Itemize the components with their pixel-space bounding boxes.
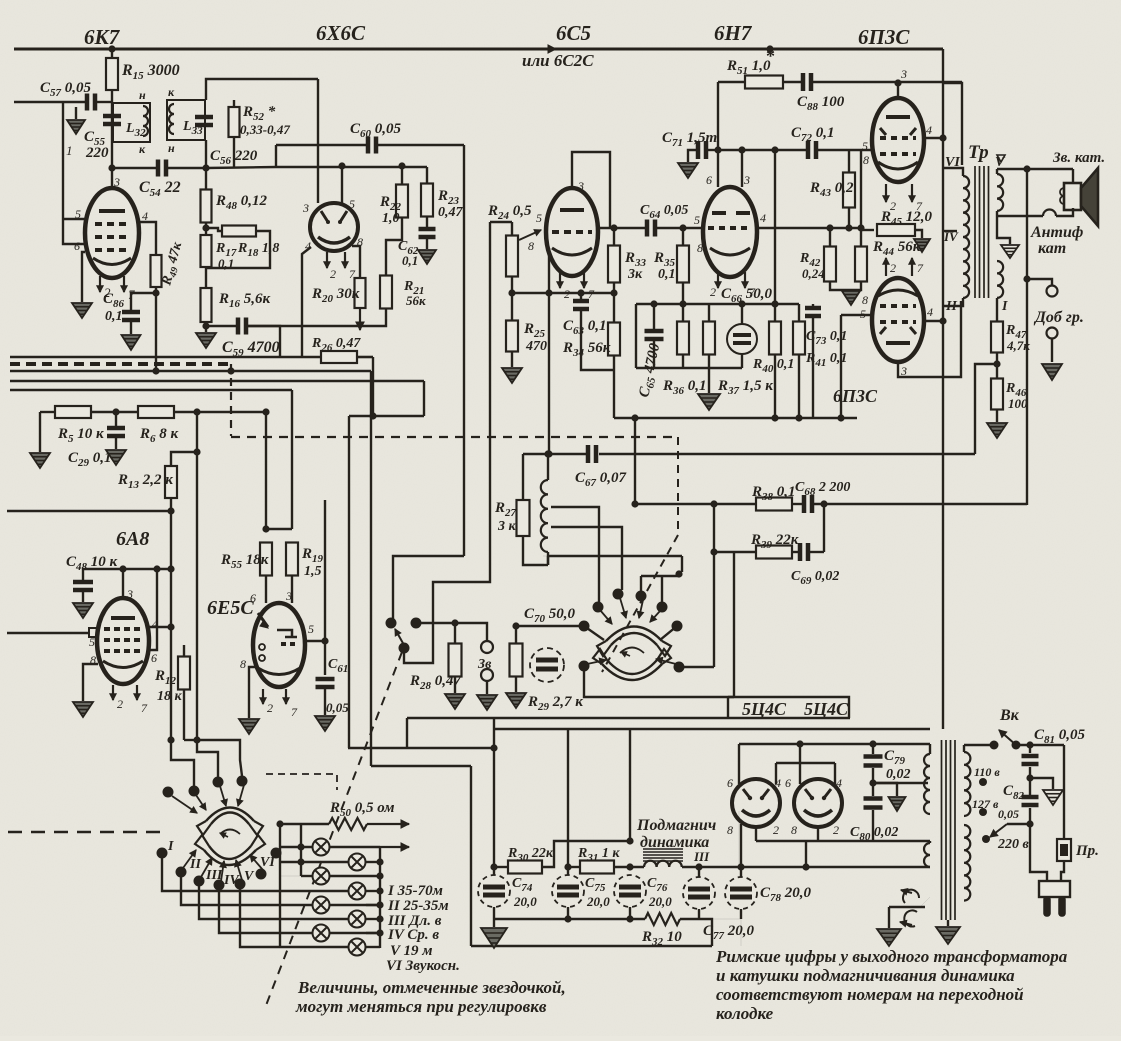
svg-text:6Н7: 6Н7 [714, 21, 753, 45]
resistor R27 [517, 500, 530, 536]
wire C81 ground branch [1030, 778, 1053, 789]
resistor R35 [682, 228, 684, 246]
wire speaker line [997, 168, 1073, 170]
wire 6A8 pin6 stub [148, 569, 157, 650]
svg-text:н: н [139, 88, 146, 102]
wire x349 long vertical [348, 416, 350, 748]
wire 6K7 cathode to ground [82, 252, 85, 302]
wire R34 down [613, 355, 615, 418]
resistor R42 [829, 228, 831, 246]
wire R16 to ground [205, 322, 207, 332]
resistor R52 [233, 100, 235, 108]
electrolytic C76 [614, 875, 646, 907]
resistor R6 [138, 406, 174, 418]
resistor R28 [449, 644, 462, 677]
capacitor C68 [804, 495, 812, 513]
power transformer filament winding [929, 841, 931, 843]
wire 6P3C upper pin3 [897, 83, 899, 98]
wire band feed 1 [171, 740, 194, 786]
svg-text:7: 7 [141, 701, 148, 715]
transformer Tp primary lower [943, 298, 963, 306]
resistor R55 [260, 543, 272, 576]
wire bottom rail y418 [614, 417, 857, 419]
tube 6H7 cathode arc [710, 248, 750, 255]
capacitor C57 [63, 101, 86, 103]
wire avc box top row [636, 303, 799, 305]
svg-text:220 в: 220 в [997, 837, 1030, 852]
lamp row5 [330, 904, 380, 906]
band switch upper arrows [172, 796, 197, 813]
svg-text:соответствуют номерам на перех: соответствуют номерам на переходной [716, 985, 1024, 1004]
svg-text:20,0: 20,0 [586, 894, 610, 909]
wire plate bus corner x942 [942, 49, 944, 83]
tube 6P3C lower beam plates [880, 327, 916, 334]
resistor R47 [996, 298, 998, 322]
svg-text:5: 5 [349, 197, 355, 211]
rotary switch upper arrows [600, 610, 612, 624]
svg-text:II: II [945, 299, 957, 314]
tube 6K7 plate bar [99, 209, 125, 213]
wire R35 to avc box [682, 282, 684, 304]
wire x471 down [470, 766, 472, 946]
ground between caps [873, 783, 897, 796]
mains plug prong left [1044, 897, 1050, 916]
svg-text:127 в: 127 в [972, 797, 999, 811]
band switch lower arrows [183, 850, 196, 868]
resistor R23 [426, 167, 428, 184]
choke field coil [644, 861, 682, 867]
electrolytic C70 [516, 625, 536, 627]
resistor R31 [568, 866, 580, 868]
svg-text:2: 2 [773, 823, 779, 837]
wire C82 bottom [1029, 808, 1031, 824]
svg-text:6: 6 [74, 239, 80, 253]
capacitor C63 [580, 293, 582, 299]
tube 6C5 plate bar [560, 208, 584, 212]
svg-text:I 35-70м: I 35-70м [387, 883, 443, 899]
power transformer HV winding [929, 744, 931, 754]
tube 6X6C heater pin2 [326, 252, 328, 268]
svg-text:Антиф: Антиф [1030, 224, 1083, 241]
svg-text:5: 5 [89, 635, 95, 649]
svg-text:II 25-35м: II 25-35м [387, 898, 449, 914]
tube 6X6C heater pin7 [344, 252, 346, 268]
svg-text:0,47: 0,47 [438, 205, 464, 220]
wire left input y511 [7, 510, 171, 512]
svg-text:3: 3 [302, 201, 309, 215]
capacitor C79 [872, 744, 874, 754]
resistor R30 [494, 866, 508, 868]
wire band feed 2 [197, 740, 218, 777]
ground under C86 [130, 321, 132, 334]
wire R28 feed [454, 623, 456, 644]
wire psu line y729 [494, 728, 930, 730]
tube 6C5 cathode arc [552, 248, 592, 255]
ground R46 [996, 410, 998, 422]
svg-text:4: 4 [760, 211, 766, 225]
tube 6P3C upper beam plates [880, 128, 916, 135]
transformer Tp secondary V [996, 169, 998, 174]
ground R28 [454, 677, 456, 693]
resistor R17 [205, 223, 207, 235]
wire choke right to transformer [682, 866, 930, 868]
svg-text:4: 4 [152, 617, 158, 631]
tube 6E5C cathode dots [259, 644, 265, 650]
svg-text:н: н [168, 141, 175, 155]
wire x325 vertical [324, 500, 326, 675]
wire 6A8 signal grid [7, 632, 89, 634]
ground R16 [196, 333, 216, 348]
wire coil bottom to switch row [544, 564, 548, 566]
resistor R49 [151, 255, 162, 287]
svg-text:6: 6 [151, 651, 157, 665]
svg-text:I: I [167, 839, 174, 854]
wire feedback tap [975, 364, 997, 454]
resistor R48 [201, 190, 212, 223]
arrow R50 output [367, 823, 409, 825]
wire L33 to 6X6C top [206, 79, 318, 100]
tube 6E5C target [277, 630, 297, 637]
tap 127v [979, 808, 987, 816]
capacitor C64 [647, 220, 655, 237]
transformer Tp secondary I [997, 261, 1003, 298]
resistor R37 [708, 304, 710, 322]
wire filament bottom lead [889, 897, 930, 907]
svg-text:0,05: 0,05 [326, 700, 349, 715]
lamp row8 [313, 946, 349, 948]
svg-text:Римские цифры у выходного тран: Римские цифры у выходного трансформатора [715, 947, 1068, 966]
svg-text:3 к: 3 к [497, 519, 517, 534]
svg-text:8: 8 [863, 153, 869, 167]
svg-text:2: 2 [833, 823, 839, 837]
svg-text:6П3С: 6П3С [858, 25, 910, 49]
ground under R25 [511, 352, 513, 367]
capacitor C67 [588, 445, 596, 463]
tube 6P3C lower heater pin2 [885, 258, 887, 276]
svg-text:IV Ср. в: IV Ср. в [387, 927, 439, 943]
ground under C62 [426, 238, 428, 249]
wire 6H7 pin4 row [757, 227, 861, 229]
tap 110v [979, 778, 987, 786]
resistor R16 [205, 267, 207, 288]
svg-text:0,24: 0,24 [802, 266, 825, 281]
tube 6P3C lower top arc [878, 290, 918, 296]
svg-text:7: 7 [291, 705, 298, 719]
svg-text:или 6С2С: или 6С2С [522, 51, 594, 70]
tube 6C5 grid [552, 230, 592, 234]
wire bus line1 y357 [10, 356, 321, 359]
svg-text:5: 5 [308, 622, 314, 636]
resistor R46 [991, 379, 1003, 410]
ground 6K7 cathode [72, 303, 92, 318]
capacitor C86 [131, 293, 156, 310]
ground filament [888, 907, 890, 928]
lamp row1 [280, 846, 313, 848]
svg-text:6П3С: 6П3С [833, 386, 878, 406]
transformer Tp core [975, 166, 989, 298]
wire antiphonic coil [1056, 208, 1073, 216]
wire 6X6C pin4 to bus [302, 247, 311, 358]
tube 6A8 heater pin2 [112, 685, 114, 700]
wire x407 stub [406, 718, 408, 748]
svg-text:Вк: Вк [999, 707, 1020, 724]
dashed rotor axis [677, 437, 679, 535]
tube 6H7 heater pin7 [744, 272, 746, 288]
wire row y416 [349, 415, 424, 417]
svg-text:3: 3 [285, 589, 292, 603]
tube 6P3C lower heater pin7 [911, 258, 913, 276]
svg-text:8: 8 [791, 823, 797, 837]
wire x568 vertical [567, 729, 569, 875]
tube 6X6C diodes [321, 211, 347, 222]
wire C80 bottom [872, 810, 874, 841]
capacitor C48 [82, 569, 84, 580]
tube 6A8 plate bar [111, 616, 135, 620]
capacitor C80 [864, 799, 883, 808]
wire upper side contacts [584, 626, 604, 640]
wire bus5 corner x292 [291, 390, 293, 529]
svg-text:Пр.: Пр. [1075, 843, 1099, 859]
wire vertical x464 [463, 145, 465, 556]
wire C70 to left contact [536, 625, 584, 627]
wire R47 R46 junction [996, 353, 998, 379]
arrow 3v ground [486, 681, 488, 694]
wire 6H7 pin3 [741, 150, 743, 187]
wire switch box row [641, 575, 679, 577]
resistor R21 [386, 217, 402, 276]
tube 6P3C lower envelope [872, 278, 924, 362]
electrolytic C74 [478, 875, 510, 907]
tube 6E5C envelope [253, 603, 305, 687]
rectifier tube 2 envelope [794, 779, 842, 827]
resistor R24 [511, 222, 513, 236]
arrow to ground Dob gr [1051, 339, 1053, 362]
ground core [947, 920, 949, 926]
resistor R13 [171, 412, 197, 466]
wire rect cathode rail y841 [755, 827, 757, 841]
wire row y454 [549, 453, 586, 455]
wire avc left vert [635, 304, 637, 368]
mains plug body [1039, 881, 1070, 897]
tube 6E5C heater pin7 [285, 689, 287, 704]
speaker driver [1064, 183, 1081, 210]
tube 6A8 cathode arc [103, 661, 143, 668]
resistor R43 [848, 150, 850, 173]
svg-text:5: 5 [860, 307, 866, 321]
wire R32 right [680, 919, 741, 946]
wire R13 bottom to row y511 [170, 498, 172, 511]
wire 6A8 pin4 [148, 626, 171, 628]
wire V winding to ground [997, 211, 1010, 244]
tube 6K7 heater pin 2 [99, 276, 101, 292]
band switch lower contacts [157, 848, 168, 859]
band switch upper contacts [189, 786, 200, 797]
wire dashed y437 long [231, 436, 678, 438]
svg-text:7: 7 [917, 261, 924, 275]
wire antenna input left [14, 101, 63, 103]
svg-text:3: 3 [743, 173, 750, 187]
tube 6P3C upper heater pin7 [911, 184, 913, 202]
svg-text:V 19 м: V 19 м [390, 943, 433, 959]
resistor R51 [718, 81, 745, 83]
tube 6P3C lower grids [880, 306, 916, 322]
svg-text:5: 5 [862, 139, 868, 153]
electrolytic C77 [698, 867, 700, 877]
wire rect1 pin8 [738, 811, 740, 867]
resistor R20 [352, 246, 360, 278]
wire psu line y718 [407, 717, 850, 719]
coil L32 box [113, 103, 150, 142]
wire bus line4 y381 [10, 380, 424, 383]
tube 6E5C deflector [258, 613, 268, 627]
wire x197 down [196, 452, 198, 740]
svg-text:0,1: 0,1 [105, 309, 123, 324]
capacitor C61 [316, 679, 335, 687]
arrow switch arm [395, 629, 404, 645]
wire C79 C80 mid [872, 768, 874, 796]
tube 6H7 plate bars [712, 211, 750, 215]
arrow on bus [535, 48, 556, 51]
wire R49 to C86 junction [155, 287, 157, 326]
svg-text:6: 6 [727, 776, 733, 790]
wire R27 bottom [523, 536, 544, 565]
wire 6P3C lower pin4 [924, 320, 943, 322]
wire bus1 corner down [372, 357, 374, 416]
tube 6P3C lower plate bar [886, 341, 910, 345]
rectifier tube 1 cathode [742, 810, 770, 816]
wire inner rail y763 [776, 762, 835, 764]
wire rectifier top rail [739, 743, 930, 745]
svg-text:8: 8 [727, 823, 733, 837]
svg-text:3: 3 [900, 67, 907, 81]
svg-text:5: 5 [694, 213, 700, 227]
wire lower right contact [679, 666, 714, 668]
wire cathode row y293 [548, 248, 550, 293]
wire R45 right to ground [915, 230, 922, 238]
wire x266 to R55 [265, 412, 267, 529]
svg-text:VI: VI [260, 855, 275, 870]
svg-text:220: 220 [85, 145, 109, 161]
svg-text:2: 2 [890, 199, 896, 213]
wire top B+ bus [14, 48, 943, 51]
ground C29 [115, 438, 117, 449]
rectifier tube 2 anodes [805, 789, 831, 798]
tube 6E5C heater pin2 [262, 689, 264, 704]
wire feed x464 to contact [393, 556, 464, 619]
wire right rail x1027 [1026, 169, 1028, 505]
switch Vk [990, 741, 999, 750]
wire R29 ground [515, 677, 517, 692]
capacitor C62 [426, 216, 428, 228]
speaker cone [1081, 168, 1098, 226]
ground C48 [82, 592, 84, 602]
resistor R29 [515, 626, 517, 644]
svg-text:20,0: 20,0 [648, 894, 672, 909]
wire row y166 [206, 167, 427, 168]
resistor R34 [608, 323, 620, 356]
rotary switch upper contacts [593, 602, 604, 613]
wire rect1 pin6 [738, 744, 740, 784]
svg-text:8: 8 [240, 657, 246, 671]
svg-text:4: 4 [927, 305, 933, 319]
wire lamp feed IV [219, 885, 313, 933]
svg-text:6А8: 6А8 [116, 528, 149, 550]
capacitor C72 [808, 141, 816, 159]
svg-text:2: 2 [267, 701, 273, 715]
dashed border band switch [266, 774, 337, 790]
wire x861 down [860, 150, 862, 246]
wire B+ feed y83 [943, 83, 962, 165]
curved arrow lower [904, 910, 917, 926]
tube 6E5C cathode arc [258, 668, 300, 675]
coil L32 [143, 106, 148, 136]
svg-text:Величины, отмеченные звездочко: Величины, отмеченные звездочкой, [297, 978, 566, 997]
svg-text:2: 2 [710, 285, 716, 299]
resistor R38 [756, 498, 792, 511]
wire cathode to oscillator x549 [548, 293, 550, 454]
resistor R41 [798, 304, 800, 322]
rectifier tube 2 cathode [804, 810, 832, 816]
wire R12 bottom [183, 690, 185, 740]
wire coil bottom [547, 552, 549, 565]
wire grid feed x490 [490, 221, 512, 223]
wire rect2 pin6 [799, 744, 801, 784]
wire bus4 corner x424 [423, 381, 425, 416]
svg-text:56к: 56к [406, 293, 426, 308]
resistor R5 [40, 411, 56, 413]
resistor R45 [861, 229, 874, 231]
wire row y228 if stage [598, 227, 647, 229]
wire x630 vertical [629, 729, 631, 841]
wire x943 lower [942, 231, 944, 729]
svg-text:Подмагнич: Подмагнич [636, 817, 716, 834]
wire bus3 corner x371 [370, 371, 372, 766]
svg-text:0,33-0,47: 0,33-0,47 [240, 122, 290, 137]
wire x943 down [942, 83, 944, 231]
svg-text:VI Звукосн.: VI Звукосн. [386, 958, 460, 974]
tube 6K7 envelope [85, 188, 139, 278]
wire row y150 [718, 149, 806, 151]
wire R55 to tube [265, 576, 267, 603]
resistor R39 [756, 546, 792, 559]
svg-text:и катушки подмагничивания дина: и катушки подмагничивания динамика [716, 966, 1015, 985]
wire 6P3C lower plate pin3 [898, 301, 961, 377]
wire plug feed [1030, 824, 1047, 881]
svg-text:6: 6 [250, 591, 256, 605]
svg-text:колодке: колодке [716, 1004, 774, 1023]
wire Dob gr terminal [1027, 279, 1052, 286]
lamp row4 [313, 890, 349, 892]
wire row y504 [635, 503, 756, 505]
wire R21 to C59 row [247, 308, 386, 326]
resistor R22 [401, 166, 403, 185]
tap 220v selector [982, 835, 990, 843]
svg-text:Доб гр.: Доб гр. [1033, 309, 1084, 326]
svg-text:5Ц4С: 5Ц4С [804, 699, 849, 719]
wire R27 top corner [523, 453, 549, 455]
tube 6A8 envelope [97, 598, 149, 684]
wire lamp feed V [240, 884, 313, 947]
electrolytic C78 [740, 867, 742, 877]
svg-text:20,0: 20,0 [513, 894, 537, 909]
rotary switch lower wiper [602, 664, 662, 680]
arrow R24 to grid [519, 230, 541, 240]
wire row y552 [714, 551, 756, 553]
resistor R19 [266, 528, 292, 530]
wire 6E5C cathode ground [249, 667, 256, 718]
resistor R50 zigzag [280, 823, 329, 825]
capacitor C59 [206, 325, 237, 327]
